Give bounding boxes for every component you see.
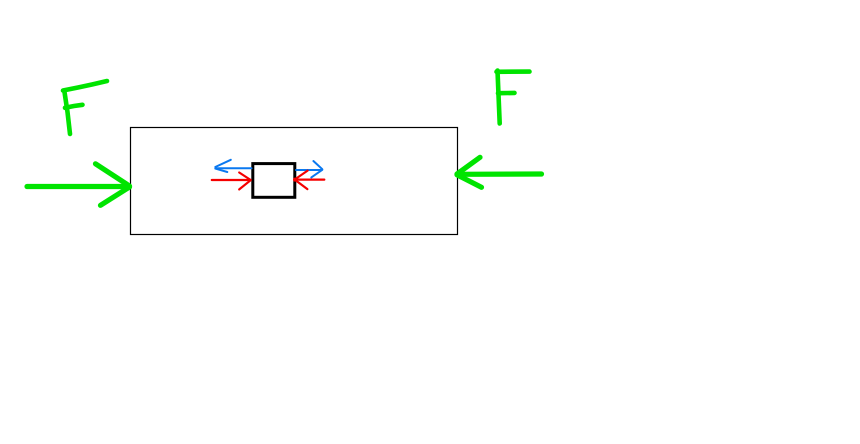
label F left (63, 81, 107, 134)
red tip dot on box border (293, 178, 297, 182)
internal arrow blue left (outward) (215, 160, 251, 172)
label F right (497, 71, 530, 124)
internal arrow blue right (outward) (296, 161, 322, 177)
force arrow F right (457, 157, 542, 187)
element box (small square) (253, 164, 295, 198)
force arrow F left (27, 164, 130, 206)
internal arrow red right (inward) (295, 171, 324, 190)
beam rectangle (131, 128, 458, 235)
internal arrow red left (inward) (212, 173, 251, 190)
